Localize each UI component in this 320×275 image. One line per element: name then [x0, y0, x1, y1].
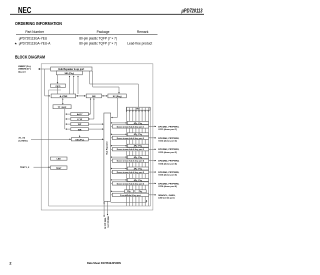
svg-text:DP1/DM1, PRTPWR1,: DP1/DM1, PRTPWR1,	[158, 126, 179, 128]
svg-text:OCI4 (down port 4): OCI4 (down port 4)	[158, 162, 177, 165]
svg-text:A-UTMI: A-UTMI	[60, 95, 68, 98]
svg-text:DP3/DM3, PRTPWR3,: DP3/DM3, PRTPWR3,	[158, 149, 179, 151]
svg-text:4Py_Phy: 4Py_Phy	[134, 179, 143, 182]
block hub spine	[104, 113, 111, 201]
block SIE core	[86, 94, 101, 98]
power arrow into spine bottom	[103, 202, 105, 205]
pio comb line 8	[147, 108, 149, 206]
svg-text:Up port: Up port	[18, 71, 26, 74]
wire FIFO down to UTMI	[57, 87, 59, 94]
svg-text:USBDP (D+),: USBDP (D+),	[18, 66, 32, 68]
svg-text:80-pin plastic TQFP (7 × 7): 80-pin plastic TQFP (7 × 7)	[79, 36, 117, 40]
svg-text:★: ★	[14, 42, 17, 46]
wire junction down to UTMI	[45, 69, 50, 96]
table header underline	[16, 33, 158, 36]
svg-text:DP2/DM2, PRTPWR2,: DP2/DM2, PRTPWR2,	[158, 138, 179, 140]
svg-text:DP5/DM5, PRTPWR5,: DP5/DM5, PRTPWR5,	[158, 172, 179, 174]
svg-text:Hub Repeater: Hub Repeater	[106, 141, 109, 155]
svg-text:Down stream hub & key port 3: Down stream hub & key port 3	[117, 148, 144, 151]
block pio hatch box	[126, 107, 150, 110]
wire feed B to registers	[93, 71, 119, 93]
wire box A to SIE	[88, 98, 90, 114]
svg-text:4Py_Phy: 4Py_Phy	[134, 167, 143, 170]
svg-text:LED: LED	[57, 159, 62, 161]
inner logic boundary right	[150, 107, 152, 206]
block hub repeater	[51, 67, 92, 71]
svg-text:Down stream hub & key port 4: Down stream hub & key port 4	[117, 160, 145, 163]
svg-text:SDA/SCL, GANG,: SDA/SCL, GANG,	[158, 194, 176, 197]
svg-text:TT / SOF: TT / SOF	[58, 107, 67, 109]
wire feed A to pio	[90, 71, 139, 107]
pio comb line 5	[138, 108, 140, 206]
wire registers down to spine	[111, 98, 117, 118]
wire TEST to test box	[34, 166, 50, 168]
svg-text:SIE: SIE	[92, 96, 96, 98]
svg-text:OCI1 (down port 1): OCI1 (down port 1)	[158, 128, 177, 131]
svg-text:DP6/DM6, PRTPWR6,: DP6/DM6, PRTPWR6,	[158, 183, 179, 185]
svg-text:4Py_Phy: 4Py_Phy	[134, 145, 143, 148]
block registers	[108, 94, 126, 98]
wire SIE-UTMI line 2	[73, 76, 75, 94]
pio comb line 4	[135, 108, 137, 206]
text labels	[18, 66, 140, 229]
svg-text:TEST1, 2: TEST1, 2	[20, 167, 30, 169]
wire SIE down to FIFO	[57, 75, 59, 84]
svg-text:OCI2 (down port 2): OCI2 (down port 2)	[158, 139, 177, 142]
svg-text:DP4/DM4, PRTPWR4,: DP4/DM4, PRTPWR4,	[158, 160, 179, 163]
inner logic boundary left/top stub	[49, 90, 62, 206]
port units	[111, 121, 180, 199]
block OSC PLL	[71, 138, 88, 141]
svg-text:BLOCK DIAGRAM: BLOCK DIAGRAM	[15, 54, 46, 59]
block FIFO	[51, 84, 66, 87]
svg-text:OCI6 (down port 6): OCI6 (down port 6)	[158, 185, 177, 188]
block UTMI	[51, 94, 76, 98]
wire bus to box A	[66, 113, 71, 115]
wire box D to spine	[88, 128, 103, 130]
svg-text:μPD720113GA-YEU: μPD720113GA-YEU	[19, 36, 48, 40]
svg-text:80-pin plastic TQFP (7 × 7): 80-pin plastic TQFP (7 × 7)	[79, 41, 117, 45]
pio comb line 2	[129, 108, 131, 206]
inner logic boundary bottom	[49, 205, 151, 207]
svg-text:NEC: NEC	[18, 6, 31, 15]
svg-text:VDD (1.5 V): VDD (1.5 V)	[107, 216, 109, 228]
svg-text:Down stream hub & key port 5: Down stream hub & key port 5	[117, 171, 144, 174]
svg-text:Data Sheet D17361EJ2V0DS: Data Sheet D17361EJ2V0DS	[87, 261, 121, 265]
wire UTMI-SIE double arrow	[76, 95, 85, 97]
svg-text:4Py_Phy: 4Py_Phy	[134, 122, 143, 125]
svg-text:ORDERING INFORMATION: ORDERING INFORMATION	[15, 21, 62, 26]
wire upstream port arrow	[38, 68, 50, 70]
power line VDD33	[103, 201, 105, 217]
svg-text:2: 2	[9, 261, 11, 265]
svg-text:X1, X2: X1, X2	[19, 138, 26, 140]
svg-text:OCI5 (down port 5): OCI5 (down port 5)	[158, 174, 177, 177]
wire box C to spine	[88, 123, 103, 125]
wire UTMI-TT vertical	[62, 98, 64, 104]
block SIE phy	[56, 71, 82, 75]
svg-text:Package: Package	[97, 30, 110, 34]
svg-text:TEST: TEST	[56, 168, 62, 170]
wire bus vertical	[64, 109, 66, 129]
wire SIE-REG double arrow	[102, 95, 107, 97]
svg-text:Remark: Remark	[137, 30, 149, 34]
header rule	[10, 13, 204, 16]
svg-text:μPD720113: μPD720113	[181, 8, 203, 14]
svg-text:Lead-free product: Lead-free product	[127, 41, 152, 45]
svg-text:4Py_Phy: 4Py_Phy	[134, 133, 143, 136]
svg-text:LED (serial port): LED (serial port)	[158, 196, 174, 199]
svg-text:Hub Repeater & up port: Hub Repeater & up port	[58, 68, 84, 71]
svg-text:SC (Reg): SC (Reg)	[113, 96, 122, 98]
svg-text:FIFO: FIFO	[56, 86, 61, 88]
wire stub into OSC top	[79, 135, 81, 137]
svg-text:OSC/PLL: OSC/PLL	[75, 139, 85, 141]
wire SIE-UTMI line 3	[77, 76, 79, 94]
wire box B to SIE	[88, 98, 94, 119]
block endpoint D	[71, 128, 89, 131]
svg-text:Down stream hub & key port 6: Down stream hub & key port 6	[117, 182, 144, 185]
block TT	[53, 105, 71, 109]
block endpoint A	[71, 113, 89, 116]
svg-text:Down stream hub & key port 1: Down stream hub & key port 1	[117, 125, 144, 128]
pio comb line 7	[144, 108, 146, 206]
chip outer boundary	[41, 64, 153, 210]
svg-text:S-serial/Irda & key port: S-serial/Irda & key port	[120, 194, 141, 197]
svg-text:Part Number: Part Number	[25, 30, 45, 34]
block endpoint B	[71, 117, 89, 120]
svg-text:USBDM (D−): USBDM (D−)	[18, 69, 31, 71]
power line VDD15	[107, 201, 109, 215]
svg-text:SIE (Phy): SIE (Phy)	[64, 73, 74, 75]
wire SIE-UTMI line 1	[69, 76, 71, 94]
svg-text:L7 W: L7 W	[77, 119, 82, 121]
svg-text:Down stream hub & key port 2: Down stream hub & key port 2	[117, 137, 144, 140]
bottom bus bar arrow	[146, 200, 148, 202]
svg-text:WR: WR	[78, 129, 82, 131]
pio comb line 1	[126, 108, 128, 206]
block LED	[51, 157, 68, 160]
svg-text:A4.17: A4.17	[77, 113, 83, 116]
bottom bus bar wire	[111, 201, 147, 203]
wire bus to box C	[66, 123, 71, 125]
svg-text:OCI3 (down port 3): OCI3 (down port 3)	[158, 151, 177, 154]
wire bus to box D	[66, 128, 71, 130]
pio comb line 3	[132, 108, 134, 206]
block TEST	[51, 166, 68, 169]
svg-text:(12 MHz): (12 MHz)	[19, 141, 28, 143]
wire bus to box B	[66, 118, 71, 120]
pio comb line 6	[141, 108, 143, 206]
wire OSC to spine	[88, 138, 103, 140]
comb arrowheads into port column	[126, 111, 149, 113]
svg-text:μPD720113GA-YEU-A: μPD720113GA-YEU-A	[19, 41, 52, 45]
wire X1 X2 to OSC	[31, 138, 71, 140]
block endpoint C	[71, 123, 89, 126]
svg-text:4Py_Phy: 4Py_Phy	[134, 156, 143, 159]
svg-text:VDD (3.3 V): VDD (3.3 V)	[103, 218, 105, 230]
